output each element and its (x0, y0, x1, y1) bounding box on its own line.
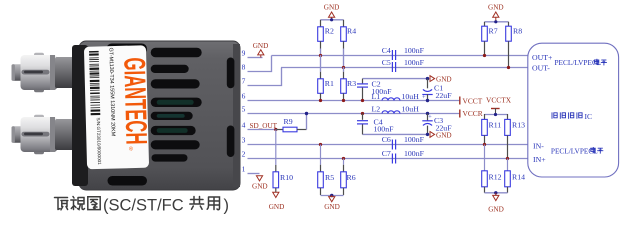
svg-text:GND: GND (324, 203, 340, 211)
wire R7 R8 top bar (485, 20, 509, 23)
svg-text:R13: R13 (512, 121, 525, 130)
module body (79, 41, 240, 190)
capacitor C4 lower (357, 112, 394, 135)
wire IN+ rail pin 2 (248, 158, 528, 160)
svg-text:R14: R14 (512, 173, 525, 182)
module top slot (107, 44, 148, 55)
resistor R5 (318, 143, 335, 195)
svg-text:R6: R6 (347, 173, 356, 182)
wire VCCR rail pin 5 (248, 113, 460, 115)
svg-text:R12: R12 (489, 173, 502, 182)
svg-text:L1: L1 (372, 92, 381, 101)
svg-text:6: 6 (242, 91, 246, 100)
power port VCCT (460, 97, 483, 106)
wire GND rail upper (363, 78, 428, 80)
op-amp protocol converter IC U1 (528, 43, 619, 177)
label PECL/LVPECL top (555, 58, 607, 67)
ground pin 1 (252, 176, 268, 191)
svg-text:(SC/ST/FC: (SC/ST/FC (103, 197, 184, 215)
svg-text:GND: GND (253, 42, 269, 50)
svg-text:R8: R8 (513, 27, 522, 36)
pin 7 (242, 76, 246, 85)
label protocol IC (552, 112, 592, 121)
svg-text:GND: GND (488, 206, 504, 214)
svg-text:100nF: 100nF (374, 125, 395, 134)
junction R1/rail (319, 99, 322, 102)
wire OUT- rail (281, 67, 528, 69)
svg-text:2: 2 (242, 149, 246, 158)
svg-text:GIANTECH: GIANTECH (117, 57, 152, 145)
svg-text:+: + (428, 114, 432, 121)
capacitor C3 (422, 112, 452, 135)
capacitor C2 (357, 79, 392, 103)
svg-text:R1: R1 (325, 79, 334, 88)
wire pin 1 lead (248, 173, 260, 175)
junction R11/IN- (483, 143, 486, 146)
svg-text:GND: GND (252, 183, 268, 191)
wire R9 riser to pin5 rail (305, 112, 308, 130)
wire pin 8 to OUT+ rail (248, 56, 272, 72)
module label (84, 45, 153, 169)
svg-text:9: 9 (242, 48, 246, 57)
module bottom slot (108, 176, 148, 186)
wire IN- rail pin 3 (248, 144, 528, 146)
svg-text:R9: R9 (284, 117, 293, 126)
resistor R9 (276, 117, 307, 132)
svg-text:R11: R11 (489, 121, 502, 130)
resistor R7 (482, 22, 498, 57)
pin label OUT- (532, 64, 550, 73)
resistor R13 (505, 114, 525, 159)
ground lower rail (426, 131, 452, 139)
pin 1 (242, 164, 246, 173)
resistor R1 (318, 55, 334, 101)
pin 6 (242, 91, 246, 100)
module left mount block (72, 45, 88, 186)
wire pin 7 to OUT- rail (248, 68, 282, 86)
svg-text:R7: R7 (489, 27, 498, 36)
pin label IN+ (533, 155, 546, 164)
svg-text:R10: R10 (280, 173, 293, 182)
junction R4/OUT- (342, 66, 345, 69)
pin 4 (242, 120, 246, 129)
module vent slots (151, 48, 202, 162)
resistor R3 (341, 67, 357, 101)
svg-text:5: 5 (242, 104, 246, 113)
pin label IN- (533, 141, 544, 150)
pin 8 (242, 62, 246, 71)
svg-text:IC: IC (585, 112, 593, 121)
resistor R14 (505, 159, 525, 193)
svg-text:®: ® (127, 147, 134, 151)
svg-text:10uH: 10uH (402, 92, 420, 101)
connector barrel top (ST) (12, 53, 81, 93)
pin label OUT+ (532, 53, 553, 62)
caption top view label (55, 197, 230, 215)
ground R10 (269, 192, 285, 211)
svg-text:3: 3 (242, 135, 246, 144)
svg-text:7: 7 (242, 76, 246, 85)
svg-text:22uF: 22uF (436, 91, 453, 100)
wire VCCT rail pin 6 (248, 100, 460, 102)
svg-text:C6: C6 (382, 135, 391, 144)
inductor L2 (372, 105, 420, 114)
inductor L1 (372, 92, 420, 101)
wire pin 9 lead (248, 57, 263, 59)
svg-text:GND: GND (324, 4, 340, 12)
svg-text:100nF: 100nF (404, 135, 425, 144)
svg-text:GND: GND (436, 76, 452, 84)
wire pin 4 lead (248, 129, 276, 131)
svg-text:C7: C7 (382, 149, 391, 158)
net label SD_OUT (250, 122, 278, 130)
svg-text:GND: GND (269, 203, 285, 211)
power port VCCR (460, 109, 483, 118)
ground top right (488, 4, 504, 22)
svg-text:R4: R4 (347, 27, 356, 36)
capacitor C4 (382, 46, 425, 60)
pin 3 (242, 135, 246, 144)
svg-text:GND: GND (436, 131, 452, 139)
svg-text:100nF: 100nF (404, 46, 425, 55)
svg-text:R2: R2 (325, 27, 334, 36)
resistor R6 (341, 157, 356, 195)
ground R12 R14 (488, 191, 504, 213)
svg-text:VCCR: VCCR (463, 109, 483, 118)
svg-text:L2: L2 (372, 105, 381, 114)
svg-text:1: 1 (242, 164, 246, 173)
label PECL/LVPECL bottom (551, 146, 603, 155)
svg-text:GND: GND (488, 4, 504, 12)
wire R11 R13 top bar (485, 113, 508, 116)
resistor R12 (482, 145, 502, 193)
svg-text:4: 4 (242, 120, 246, 129)
wire GND rail lower (363, 133, 428, 135)
svg-text:IN+: IN+ (533, 155, 546, 164)
svg-text:OUT+: OUT+ (532, 53, 553, 62)
svg-text:VCCTX: VCCTX (486, 95, 512, 104)
resistor R2 (318, 20, 334, 55)
power port VCCTX (486, 95, 512, 114)
svg-text:10uH: 10uH (402, 105, 420, 114)
junction R3/rail (342, 99, 345, 102)
svg-text:VCCT: VCCT (463, 97, 483, 106)
module right pills (227, 58, 235, 158)
capacitor C7 (382, 149, 425, 163)
junction R2/OUT+ (319, 54, 322, 57)
ground R5 R6 (324, 194, 340, 211)
capacitor C1 (422, 79, 452, 103)
resistor R11 (482, 114, 502, 145)
ground upper rail (426, 76, 452, 84)
junction R13/IN+ (506, 157, 509, 160)
svg-text:R5: R5 (325, 173, 334, 182)
junction SD_OUT (274, 128, 277, 131)
svg-text:R3: R3 (347, 79, 356, 88)
wire R2 R4 top bar (321, 18, 344, 21)
pin 9 (242, 48, 246, 57)
ground pin 9 (253, 42, 269, 58)
svg-text:+: + (422, 94, 426, 101)
capacitor C6 (382, 135, 425, 149)
svg-text:100nF: 100nF (404, 58, 425, 67)
ground top left (324, 4, 340, 20)
pin 5 (242, 104, 246, 113)
pin 2 (242, 149, 246, 158)
connector barrel bottom (ST) (12, 115, 81, 155)
svg-text:C4: C4 (382, 46, 391, 55)
svg-text:100nF: 100nF (404, 149, 425, 158)
svg-text:OUT-: OUT- (532, 64, 550, 73)
resistor R8 (506, 22, 523, 69)
svg-text:8: 8 (242, 62, 246, 71)
wire R5 R6 bottom bar (321, 195, 344, 197)
svg-text:IN-: IN- (533, 141, 544, 150)
svg-text:C5: C5 (382, 58, 391, 67)
resistor R4 (341, 20, 357, 67)
svg-text:): ) (224, 197, 230, 215)
wire R12 R14 bottom bar (485, 192, 508, 194)
wire OUT+ rail (272, 55, 528, 57)
capacitor C5 (382, 58, 425, 72)
resistor R10 (273, 130, 293, 193)
